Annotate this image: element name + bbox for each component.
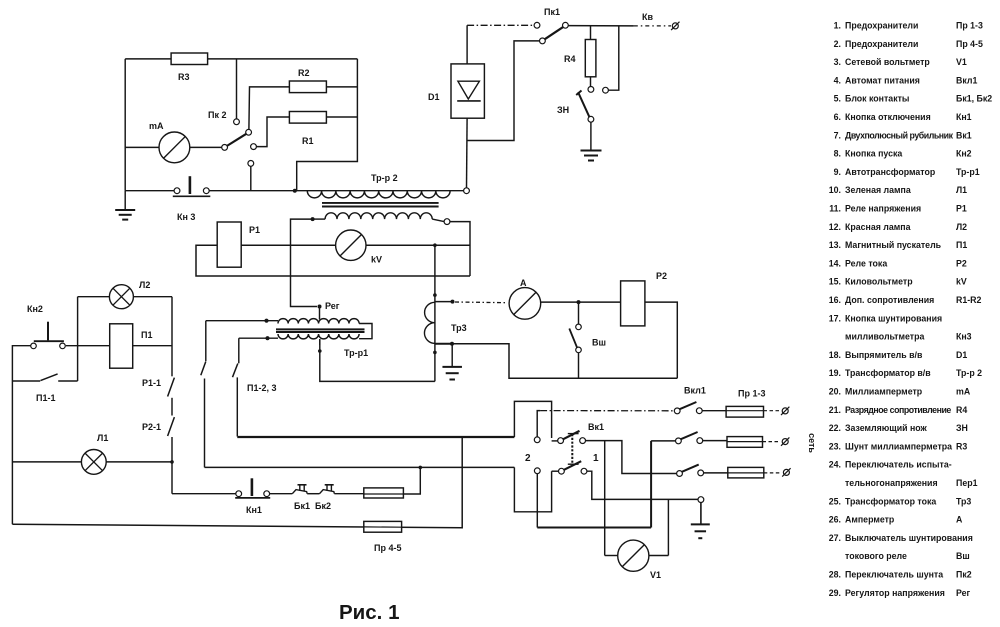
- svg-text:13.: 13.: [829, 240, 841, 250]
- wire P1-2 bus to Vk1: [205, 466, 515, 468]
- svg-text:25.: 25.: [829, 496, 841, 506]
- breaker Vkl1: [674, 408, 680, 414]
- wire Tr3 top tap: [435, 301, 453, 303]
- svg-text:Тр3: Тр3: [956, 496, 971, 506]
- svg-text:23.: 23.: [829, 441, 841, 451]
- switch Pk2: [222, 145, 228, 151]
- switch Vk1 bottom blade: [552, 470, 559, 472]
- svg-text:20.: 20.: [829, 387, 841, 397]
- svg-text:19.: 19.: [829, 368, 841, 378]
- svg-text:Кнопка шунтирования: Кнопка шунтирования: [845, 313, 942, 323]
- svg-text:тельногонапряжения: тельногонапряжения: [845, 478, 938, 488]
- svg-text:Автотрансформатор: Автотрансформатор: [845, 167, 936, 177]
- wire Pk2 right contact to R1: [256, 117, 289, 147]
- svg-text:Тр-р 2: Тр-р 2: [371, 173, 398, 183]
- terminal ground junction: [698, 497, 704, 503]
- switch Vk1 frame top: [514, 401, 551, 438]
- svg-text:Предохранители: Предохранители: [845, 21, 918, 31]
- svg-text:Вк1: Вк1: [956, 130, 972, 140]
- svg-text:18.: 18.: [829, 350, 841, 360]
- wire Pk2 top contact to bus: [236, 59, 238, 119]
- fuse Pr4 upper: [364, 488, 404, 498]
- resistor R1: [289, 112, 326, 124]
- svg-text:Тр-р1: Тр-р1: [344, 348, 368, 358]
- svg-text:D1: D1: [428, 92, 440, 102]
- svg-text:14.: 14.: [829, 258, 841, 268]
- svg-text:2.: 2.: [834, 39, 841, 49]
- wire row2 to fuse: [703, 440, 727, 442]
- autotransformer Tr-r1 core: [276, 328, 365, 330]
- svg-text:D1: D1: [956, 350, 967, 360]
- node Tr3 top tap: [451, 300, 455, 304]
- node Vsh junction: [577, 300, 581, 304]
- svg-text:9.: 9.: [834, 167, 841, 177]
- wire D1 to Pk1 dashdot: [467, 24, 534, 26]
- lamp L2: [109, 285, 133, 309]
- wire between contacts: [171, 398, 173, 416]
- fuse Pr5 lower: [364, 521, 402, 532]
- svg-text:Р1-1: Р1-1: [142, 378, 161, 388]
- svg-text:kV: kV: [956, 277, 967, 287]
- wire Tr3 primary: [434, 245, 436, 381]
- svg-text:8.: 8.: [834, 149, 841, 159]
- svg-text:Блок контакты: Блок контакты: [845, 94, 909, 104]
- svg-text:3.: 3.: [834, 57, 841, 67]
- wire L1 left: [12, 461, 81, 463]
- svg-text:Выпрямитель в/в: Выпрямитель в/в: [845, 350, 923, 360]
- wire fuse Pr1 out dashed: [764, 410, 781, 412]
- svg-text:Л1: Л1: [97, 433, 108, 443]
- contact row2: [651, 440, 675, 442]
- pushbutton Kn2: [47, 322, 49, 341]
- node Tr3 blob lower: [433, 351, 437, 355]
- switch Vk1 frame bottom: [514, 467, 551, 511]
- svg-text:Кв: Кв: [642, 12, 653, 22]
- ground Tr3: [442, 366, 462, 368]
- resistor R4: [590, 26, 592, 40]
- node kV right junction: [433, 243, 437, 247]
- wire mA to Pk2: [190, 146, 222, 148]
- transformer Tr-r2 core: [322, 202, 439, 204]
- svg-text:Пк1: Пк1: [544, 7, 560, 17]
- svg-text:15.: 15.: [829, 277, 841, 287]
- transformer Tr3 secondary: [424, 302, 434, 343]
- switch Vk1 top blade: [552, 440, 558, 442]
- wire row2 riser: [650, 441, 652, 528]
- svg-text:Амперметр: Амперметр: [845, 515, 895, 525]
- rectifier D1: [451, 64, 484, 118]
- svg-text:Шунт миллиамперметра: Шунт миллиамперметра: [845, 441, 952, 451]
- svg-text:Р1: Р1: [956, 204, 967, 214]
- svg-text:10.: 10.: [829, 185, 841, 195]
- svg-text:17.: 17.: [829, 313, 841, 323]
- contactor coil P1: [110, 324, 133, 368]
- svg-text:Р2: Р2: [656, 271, 667, 281]
- resistor R3: [171, 53, 208, 65]
- wire fuse Pr3 out dashed: [764, 472, 782, 474]
- transformer Tr-r2 primary: [295, 190, 464, 192]
- wire Tr3 primary elbow: [320, 339, 435, 381]
- svg-text:12.: 12.: [829, 222, 841, 232]
- svg-text:21.: 21.: [829, 405, 841, 415]
- svg-text:R4: R4: [564, 54, 576, 64]
- svg-text:Вкл1: Вкл1: [684, 386, 706, 396]
- wire ground stub Tr3: [451, 344, 453, 366]
- wire thick bus to Vk1: [237, 436, 514, 438]
- svg-text:Вк1: Вк1: [588, 422, 604, 432]
- wire Kn1 to Bk1: [270, 493, 293, 495]
- svg-text:Регулятор напряжения: Регулятор напряжения: [845, 588, 945, 598]
- svg-text:Р2-1: Р2-1: [142, 422, 161, 432]
- svg-text:kV: kV: [371, 255, 382, 265]
- svg-text:Пр 1-3: Пр 1-3: [738, 389, 765, 399]
- svg-text:27.: 27.: [829, 533, 841, 543]
- switch Vk1 left pole bottom: [534, 468, 540, 474]
- svg-text:Пр 4-5: Пр 4-5: [956, 39, 983, 49]
- svg-text:11.: 11.: [829, 204, 841, 214]
- svg-text:Реле напряжения: Реле напряжения: [845, 204, 921, 214]
- transformer Tr-r2 secondary: [313, 218, 326, 220]
- wire P1 left loop: [196, 245, 470, 276]
- terminal Kv: [672, 23, 678, 29]
- svg-text:mA: mA: [956, 387, 971, 397]
- svg-text:29.: 29.: [829, 588, 841, 598]
- ground mains: [691, 523, 710, 525]
- wire Kv dashed: [634, 25, 671, 27]
- svg-text:Р2: Р2: [956, 258, 967, 268]
- svg-text:24.: 24.: [829, 460, 841, 470]
- voltmeter V1: [605, 555, 618, 557]
- svg-text:mA: mA: [149, 121, 164, 131]
- ground ZN: [581, 150, 602, 152]
- svg-text:Р1: Р1: [249, 225, 260, 235]
- fuse Pr3: [728, 467, 764, 478]
- switch Vk1 right pole top: [580, 438, 586, 444]
- wire Pk1 to R4 node: [568, 25, 634, 27]
- wire P1 to kV: [241, 244, 335, 246]
- svg-text:V1: V1: [956, 57, 967, 67]
- node Tr3 top blob: [433, 293, 437, 297]
- contact row3: [677, 471, 683, 477]
- node Tr3 bottom tap: [450, 342, 454, 346]
- wire Tr-r1 top to P1-2: [205, 321, 207, 361]
- svg-text:Двухполюсный рубильник: Двухполюсный рубильник: [845, 130, 954, 140]
- svg-text:Тр-р1: Тр-р1: [956, 167, 980, 177]
- wire ground drop: [700, 503, 702, 524]
- contact P2-1: [168, 417, 175, 436]
- svg-text:Пк 2: Пк 2: [208, 110, 226, 120]
- svg-text:П1-1: П1-1: [36, 393, 55, 403]
- wire Tr3 bottom tap: [435, 343, 452, 345]
- svg-text:токового реле: токового реле: [845, 551, 907, 561]
- wire V1 branch: [604, 441, 606, 556]
- wire Vk1 top out: [586, 441, 677, 474]
- svg-text:R3: R3: [178, 72, 190, 82]
- wire Kn3 to Tr-r2: [209, 190, 295, 192]
- svg-text:28.: 28.: [829, 570, 841, 580]
- svg-text:2: 2: [525, 453, 531, 464]
- milliammeter mA: [159, 132, 190, 163]
- wire R4 bypass: [608, 26, 618, 90]
- wire Vk1 bottom out: [587, 471, 698, 499]
- wire P2 right loop: [645, 302, 677, 378]
- switch Vk1 right pole bottom: [581, 468, 587, 474]
- svg-text:Автомат питания: Автомат питания: [845, 75, 920, 85]
- wire R chain top: [171, 297, 173, 377]
- wire R1 to right rail: [326, 116, 357, 118]
- node tap blob Tr-r1: [318, 349, 322, 353]
- wire fuse dogleg: [403, 467, 420, 494]
- svg-text:Рег: Рег: [325, 301, 340, 311]
- fuse Pr1: [726, 406, 763, 417]
- svg-text:Вш: Вш: [956, 551, 970, 561]
- svg-text:милливольтметра: милливольтметра: [845, 332, 924, 342]
- svg-text:Тр-р 2: Тр-р 2: [956, 368, 982, 378]
- knife switch ZN: [578, 92, 589, 117]
- relay P2: [621, 281, 645, 326]
- svg-text:Тр3: Тр3: [451, 323, 467, 333]
- wire R2 to right rail: [326, 86, 357, 88]
- svg-text:Трансформатор в/в: Трансформатор в/в: [845, 368, 931, 378]
- svg-text:Кн1: Кн1: [246, 505, 262, 515]
- svg-text:Миллиамперметр: Миллиамперметр: [845, 387, 923, 397]
- contact P1-1r: [168, 378, 175, 397]
- node Tr-r1 top-left blob: [264, 319, 268, 323]
- wire Kn2 to P1 coil: [66, 345, 110, 347]
- switch Pk1: [534, 22, 540, 28]
- block contact Bk1: [292, 490, 307, 494]
- terminal mains 3: [783, 469, 789, 475]
- svg-text:сеть: сеть: [807, 433, 817, 453]
- svg-text:Магнитный пускатель: Магнитный пускатель: [845, 240, 942, 250]
- svg-text:Сетевой вольтметр: Сетевой вольтметр: [845, 57, 930, 67]
- wire P1-3 down: [236, 377, 238, 436]
- svg-text:Зеленая лампа: Зеленая лампа: [845, 185, 911, 195]
- svg-text:Пр 4-5: Пр 4-5: [374, 543, 401, 553]
- svg-text:R1: R1: [302, 136, 314, 146]
- autotransformer Tr-r1 bottom winding: [239, 337, 278, 339]
- svg-text:Рег: Рег: [956, 588, 971, 598]
- wire A to P2: [541, 301, 621, 303]
- switch Vk1 left pole top: [534, 437, 540, 443]
- svg-text:Переключатель шунта: Переключатель шунта: [845, 570, 943, 580]
- wire Tr3 bottom to loop: [452, 344, 677, 379]
- svg-text:ЗН: ЗН: [956, 423, 968, 433]
- svg-text:Рис. 1: Рис. 1: [339, 601, 399, 624]
- node fuse tap: [419, 466, 423, 470]
- wire D1 top: [466, 25, 468, 64]
- svg-text:4.: 4.: [834, 75, 841, 85]
- wire L2 left: [78, 296, 110, 298]
- terminal mains 2: [782, 439, 788, 445]
- wire Pk1 pivot to D1 bottom: [467, 41, 539, 141]
- wire right rail down: [297, 59, 358, 191]
- svg-text:Кн1: Кн1: [956, 112, 972, 122]
- svg-text:V1: V1: [650, 570, 661, 580]
- node Tr-r1 bottom-left blob: [265, 336, 269, 340]
- wire bottom rail: [12, 437, 462, 528]
- wire to Kn1: [172, 493, 236, 495]
- wire Tr3 to ammeter dashed: [455, 301, 508, 304]
- wire left rail: [124, 59, 126, 191]
- svg-text:Кн 3: Кн 3: [177, 212, 195, 222]
- fuse Pr2: [727, 437, 763, 448]
- switch Vsh: [578, 302, 580, 324]
- ground top-left: [124, 191, 126, 210]
- svg-text:7.: 7.: [834, 130, 841, 140]
- wire L2 right: [133, 296, 172, 298]
- svg-text:Вш: Вш: [592, 338, 606, 348]
- svg-text:Киловольтметр: Киловольтметр: [845, 277, 913, 287]
- svg-text:А: А: [956, 515, 963, 525]
- svg-text:22.: 22.: [829, 423, 841, 433]
- wire P1-2 down: [204, 379, 206, 468]
- svg-text:П1-2, 3: П1-2, 3: [247, 383, 276, 393]
- svg-text:1.: 1.: [834, 21, 841, 31]
- autotransformer Tr-r1 top winding: [206, 320, 278, 322]
- svg-text:1: 1: [593, 453, 599, 464]
- wire Vsh down: [578, 353, 580, 378]
- relay P1: [217, 222, 241, 267]
- wire secondary right to kV loop: [450, 222, 470, 276]
- svg-text:Кн3: Кн3: [956, 332, 972, 342]
- svg-text:Предохранители: Предохранители: [845, 39, 918, 49]
- svg-text:R1-R2: R1-R2: [956, 295, 982, 305]
- svg-text:Бк2: Бк2: [315, 501, 331, 511]
- svg-text:Выключатель шунтирования: Выключатель шунтирования: [845, 533, 973, 543]
- svg-text:Доп. сопротивления: Доп. сопротивления: [845, 295, 934, 305]
- svg-text:Л2: Л2: [139, 280, 150, 290]
- pushbutton Kn1: [236, 491, 242, 497]
- wire top bus: [125, 58, 357, 60]
- wire to Vkl1 dashdot: [540, 410, 674, 412]
- svg-text:Переключатель испыта-: Переключатель испыта-: [845, 460, 952, 470]
- contact P1-3: [233, 364, 238, 378]
- wire Bk2 to fuse: [334, 493, 363, 495]
- svg-text:П1: П1: [956, 240, 967, 250]
- pushbutton Kn3: [174, 188, 180, 194]
- wire P1-1 line: [12, 380, 40, 382]
- wire V1 right: [649, 555, 669, 557]
- wire Kn2 left to rail: [12, 346, 30, 525]
- svg-text:Кнопка пуска: Кнопка пуска: [845, 149, 902, 159]
- svg-text:R3: R3: [956, 441, 967, 451]
- svg-text:Красная лампа: Красная лампа: [845, 222, 911, 232]
- svg-text:R4: R4: [956, 405, 967, 415]
- wire contact chain down: [171, 437, 173, 494]
- svg-text:16.: 16.: [829, 295, 841, 305]
- svg-text:Вкл1: Вкл1: [956, 75, 977, 85]
- svg-text:П1: П1: [141, 330, 152, 340]
- svg-text:6.: 6.: [834, 112, 841, 122]
- switch Vk1 link bar: [571, 434, 573, 464]
- svg-text:A: A: [520, 278, 527, 288]
- svg-text:Кн2: Кн2: [956, 149, 972, 159]
- wire L1 right: [106, 461, 172, 463]
- svg-text:ЗН: ЗН: [557, 105, 569, 115]
- regulator Reg tap: [318, 305, 322, 309]
- wire P1 coil right: [133, 345, 172, 347]
- lamp L1: [81, 450, 106, 475]
- svg-text:R2: R2: [298, 68, 310, 78]
- svg-text:5.: 5.: [834, 94, 841, 104]
- svg-text:Разрядное сопротивление: Разрядное сопротивление: [845, 405, 951, 415]
- wire rail to row2: [537, 527, 651, 529]
- wire row3 to fuse: [704, 472, 728, 474]
- svg-text:Пер1: Пер1: [956, 478, 978, 488]
- wire Bk1 to Bk2: [307, 493, 319, 495]
- svg-text:Пк2: Пк2: [956, 570, 972, 580]
- wire fuse Pr2 out dashed: [763, 441, 781, 443]
- svg-text:Трансформатор тока: Трансформатор тока: [845, 496, 936, 506]
- wire Pk2 bottom contact down: [250, 166, 252, 190]
- svg-text:Заземляющий нож: Заземляющий нож: [845, 423, 928, 433]
- wire Tr-r1 bottom to P1-3: [238, 338, 240, 363]
- svg-text:Кнопка отключения: Кнопка отключения: [845, 112, 931, 122]
- svg-text:Бк1, Бк2: Бк1, Бк2: [956, 94, 992, 104]
- wire P1-1 to L2 drop: [58, 380, 77, 382]
- node L1 junction: [170, 460, 174, 464]
- block contact Bk2: [320, 490, 335, 494]
- svg-text:Бк1: Бк1: [294, 501, 310, 511]
- svg-text:Л1: Л1: [956, 185, 967, 195]
- wire bottom bus left: [125, 190, 174, 192]
- wire D1 bottom: [466, 118, 469, 188]
- node Tr-r2 secondary left: [311, 217, 315, 221]
- wire Tr-r1 bottom tap: [319, 339, 321, 345]
- ammeter A: [509, 288, 541, 320]
- svg-text:Л2: Л2: [956, 222, 967, 232]
- wire rail to mA: [125, 146, 159, 148]
- node junction Tr-r2 left: [293, 189, 297, 193]
- svg-text:Реле тока: Реле тока: [845, 258, 887, 268]
- wire kV right: [366, 244, 470, 246]
- wire Vkl1 to fuse: [702, 410, 726, 412]
- kilovoltmeter kV: [336, 230, 366, 260]
- wire secondary left to Reg: [291, 219, 318, 306]
- resistor R2: [289, 81, 326, 93]
- svg-text:Пр 1-3: Пр 1-3: [956, 21, 983, 31]
- contact P1-1: [41, 374, 58, 381]
- contact P1-2: [201, 362, 206, 376]
- wire Pk2 pivot to R2: [249, 87, 290, 130]
- wire ZN to ground: [590, 122, 592, 149]
- svg-text:Кн2: Кн2: [27, 304, 43, 314]
- terminal mains 1: [782, 408, 788, 414]
- wire L2 drop: [77, 297, 79, 381]
- svg-text:26.: 26.: [829, 515, 841, 525]
